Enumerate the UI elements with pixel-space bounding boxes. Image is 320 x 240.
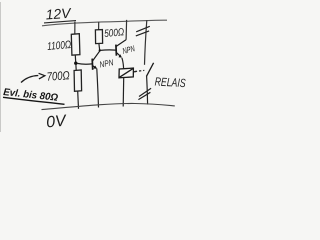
break marks (top) xyxy=(136,26,150,36)
wire Q1 emitter to 0V rail xyxy=(97,69,99,108)
wire Q2 collector to rail xyxy=(125,20,128,40)
relay coil K1 xyxy=(119,68,136,78)
svg-text:700Ω: 700Ω xyxy=(46,68,70,84)
wire node A to Q1 base xyxy=(77,62,92,65)
relay contact K1 blade xyxy=(146,63,153,77)
svg-text:1100Ω: 1100Ω xyxy=(47,39,72,53)
wire node B to Q2 base xyxy=(100,49,115,52)
svg-text:500Ω: 500Ω xyxy=(104,26,125,40)
wire contact to 0V rail (lower) xyxy=(147,76,148,104)
transistor Q1 xyxy=(92,51,99,70)
underline of annotation xyxy=(3,97,65,104)
wire R3 to node B xyxy=(98,44,101,50)
wire rail to contact (upper) xyxy=(145,20,147,65)
node A (divider junction) xyxy=(74,62,77,65)
transistor Q2 xyxy=(116,40,126,57)
dashed mechanical link to contact xyxy=(135,70,145,71)
top +12V rail xyxy=(42,20,167,26)
net label 12V xyxy=(45,5,73,23)
Q2 emitter arrowhead xyxy=(119,54,122,57)
wire rail to R1 xyxy=(74,22,76,34)
wire rail to R3 xyxy=(98,22,100,30)
break marks (bottom) xyxy=(138,88,151,99)
resistor R1 1100ohm xyxy=(71,34,80,56)
resistor R2 700ohm xyxy=(74,70,82,91)
resistor R3 500ohm xyxy=(95,30,102,44)
paper background xyxy=(0,0,200,134)
wire Q2 emitter to relay coil xyxy=(122,58,124,69)
bottom 0V rail xyxy=(42,103,175,109)
Q1 emitter arrowhead xyxy=(93,66,97,69)
svg-text:RELAIS: RELAIS xyxy=(154,75,186,91)
scan edge artifact left xyxy=(0,2,2,132)
underline of 12V xyxy=(44,21,76,23)
svg-text:0V: 0V xyxy=(45,112,67,131)
node B (Q1 collector / Q2 base) xyxy=(99,49,101,51)
wire relay coil to 0V rail xyxy=(122,78,125,107)
svg-text:12V: 12V xyxy=(45,5,73,23)
annotation arrow to 700 ohm xyxy=(21,73,45,82)
wire node A to R2 xyxy=(75,65,77,70)
wire R2 to 0V rail xyxy=(77,91,80,109)
wire R1 to node A xyxy=(74,55,76,62)
